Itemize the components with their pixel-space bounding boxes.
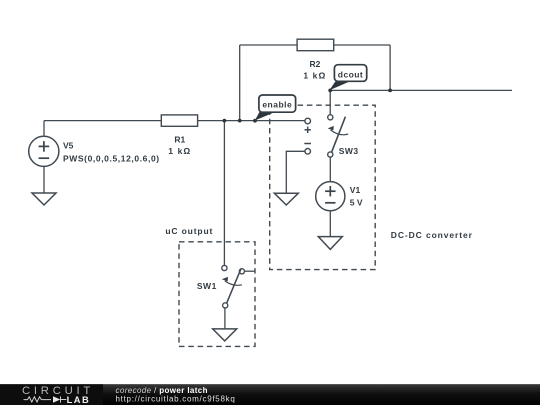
net flag enable bbox=[255, 95, 296, 121]
port - terminal bbox=[304, 144, 311, 155]
svg-text:DC-DC converter: DC-DC converter bbox=[391, 230, 473, 240]
node junction dot E (R2 right) bbox=[388, 89, 392, 93]
footer bar bbox=[0, 384, 540, 405]
wire junction down to SW1 bbox=[223, 121, 225, 266]
switch SW3 bbox=[328, 115, 359, 157]
svg-text:V5: V5 bbox=[63, 140, 74, 150]
svg-text:corecode / power latch: corecode / power latch bbox=[116, 386, 208, 395]
wire dcout to SW3 bbox=[329, 90, 331, 114]
resistor R2 bbox=[297, 39, 334, 80]
wire R2 loop right vertical bbox=[389, 45, 391, 90]
ground below SW1 bbox=[213, 329, 237, 341]
wire R2 loop top right bbox=[334, 44, 390, 46]
svg-text:1 kΩ: 1 kΩ bbox=[303, 70, 326, 80]
switch SW1 bbox=[197, 265, 255, 308]
svg-text:http://circuitlab.com/c9f58kq: http://circuitlab.com/c9f58kq bbox=[116, 395, 236, 404]
node junction dot B (to R2 loop) bbox=[238, 119, 242, 123]
wire dcout horizontal bbox=[330, 89, 512, 91]
svg-text:dcout: dcout bbox=[338, 69, 363, 79]
wire R2 loop left vertical bbox=[239, 45, 241, 121]
node junction dot C (enable tail) bbox=[253, 119, 257, 123]
voltage source V5 bbox=[29, 136, 160, 166]
node junction dot A (to SW1) bbox=[223, 119, 227, 123]
wire SW1 to ground bbox=[224, 308, 226, 329]
dashed box uC output bbox=[179, 242, 255, 347]
svg-text:uC output: uC output bbox=[165, 226, 213, 236]
resistor R1 bbox=[161, 115, 197, 156]
svg-text:SW3: SW3 bbox=[339, 146, 359, 156]
svg-text:PWS(0,0,0.5,12,0.6,0): PWS(0,0,0.5,12,0.6,0) bbox=[63, 153, 160, 163]
voltage source V1 bbox=[316, 182, 363, 211]
CircuitLab logo bbox=[22, 385, 94, 405]
ground inside DC-DC box bbox=[274, 193, 298, 205]
wire V5 bottom to ground bbox=[43, 166, 45, 193]
svg-text:V1: V1 bbox=[350, 185, 361, 195]
wire minus port to ground bbox=[286, 151, 305, 193]
svg-text:1 kΩ: 1 kΩ bbox=[168, 146, 191, 156]
wire V1 to ground bbox=[329, 211, 331, 237]
dashed box DC-DC converter bbox=[270, 105, 376, 269]
wire V5 to R1 bbox=[44, 120, 161, 122]
wire SW3 to V1 bbox=[329, 157, 331, 182]
svg-text:R2: R2 bbox=[309, 59, 320, 69]
svg-text:LAB: LAB bbox=[67, 395, 91, 405]
svg-text:SW1: SW1 bbox=[197, 281, 217, 291]
wire V5 top vertical bbox=[43, 121, 45, 137]
svg-text:5 V: 5 V bbox=[350, 197, 363, 207]
port + terminal bbox=[305, 118, 311, 133]
wire R1 to DC-DC + port bbox=[198, 120, 305, 122]
svg-text:enable: enable bbox=[262, 100, 292, 110]
ground below V5 bbox=[32, 193, 56, 205]
svg-text:R1: R1 bbox=[174, 135, 185, 145]
ground below V1 bbox=[318, 237, 342, 250]
wire R2 loop top left bbox=[240, 44, 297, 46]
net flag dcout bbox=[329, 65, 366, 91]
node junction dot D (dcout) bbox=[328, 89, 332, 93]
